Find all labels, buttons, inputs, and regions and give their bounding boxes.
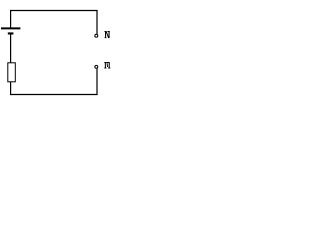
- wire top horizontal: [10, 10, 98, 12]
- wire left vertical middle: [10, 34, 12, 63]
- battery B1 long plate (positive): [1, 27, 20, 29]
- battery B1 short plate (negative): [8, 32, 14, 34]
- wire left vertical upper: [10, 10, 12, 29]
- wire right vertical upper: [96, 10, 98, 34]
- node M label: [104, 62, 110, 69]
- terminal node M circle: [95, 65, 98, 68]
- wire bottom horizontal: [10, 94, 98, 96]
- wire right vertical lower: [96, 69, 98, 95]
- node N label: [105, 31, 110, 38]
- wire left vertical lower: [10, 82, 12, 95]
- resistor R1: [8, 63, 16, 82]
- terminal node N circle: [95, 34, 98, 37]
